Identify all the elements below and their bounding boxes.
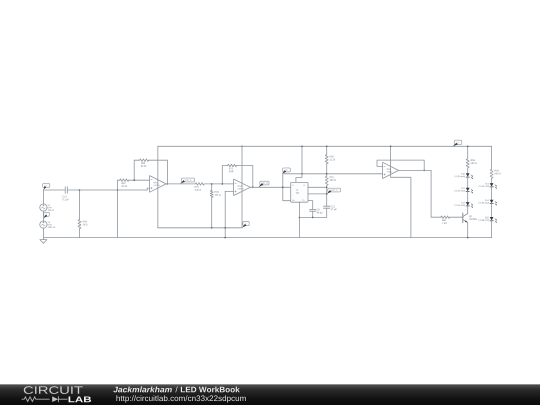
resistor R62: [441, 216, 450, 219]
wire OA3 negative supply: [391, 177, 411, 237]
wire D14 to D15: [491, 204, 493, 217]
LED D11 label: [461, 187, 464, 188]
wire OA1 output: [166, 183, 195, 185]
junction chain pin2: [326, 193, 328, 195]
footer url: [116, 395, 245, 402]
op-amp OA1: [150, 176, 167, 193]
logo diode: [52, 396, 58, 402]
capacitor C9: [310, 210, 316, 212]
capacitor C10: [65, 187, 67, 194]
junction node B: [117, 189, 119, 191]
junction OA3 feedback out: [423, 170, 425, 172]
resistor R60: [326, 146, 328, 154]
junction R69 top: [211, 183, 213, 185]
CircuitLab logo CIRCUIT: [24, 386, 83, 394]
footer bar: [0, 384, 540, 405]
wire rail to chain2: [491, 146, 493, 169]
junction C9 bottom: [312, 217, 314, 219]
wire OA3 output: [399, 170, 442, 217]
resistor R67: [120, 179, 129, 182]
IC U1: [291, 182, 308, 202]
wire OA3 feedback: [377, 160, 424, 170]
wire OA2 non-inverting input: [225, 190, 233, 192]
transistor Q1 label: [469, 215, 472, 217]
wire OA2 +input to ground: [224, 191, 226, 237]
junction chain pin1: [326, 187, 328, 189]
junction feedback-output: [167, 183, 169, 185]
junction R60 signal: [326, 173, 328, 175]
op-amp OA3: [383, 162, 399, 178]
wire source V4 top: [42, 190, 44, 204]
LED D12: [466, 202, 470, 206]
wire V5 to ground rail: [42, 228, 44, 237]
ground: [42, 238, 44, 240]
wire R70 to OA2: [204, 183, 233, 185]
wire OA2 output: [250, 186, 290, 188]
junction +input ground: [224, 237, 226, 239]
wire C9 to bottom wire: [312, 211, 314, 217]
resistor R62 label: [442, 219, 446, 221]
wire feedback tap: [134, 160, 139, 180]
footer logo and text: [0, 384, 540, 405]
junction flag node and OA2 out: [282, 187, 284, 189]
junction OA3 supply rail: [390, 146, 392, 148]
net flag stage2 output: [260, 181, 269, 185]
capacitor C9 label: [317, 209, 320, 211]
LED D11: [466, 188, 470, 192]
junction R69 bottom: [211, 227, 213, 229]
LED D14 label: [485, 200, 489, 201]
wire flag node drop: [283, 174, 291, 201]
junction OA2 supply-rail: [241, 146, 243, 148]
junction node A top: [79, 189, 81, 191]
wire C11 bottom: [326, 208, 328, 217]
resistor R71: [228, 164, 237, 167]
wire D13 to D14: [491, 187, 493, 200]
wire between V4 and V5: [42, 211, 44, 221]
net tag chain: [328, 188, 341, 192]
transistor Q1: [462, 213, 464, 223]
footer document title: [181, 387, 240, 393]
wire flag node horizontal: [283, 173, 383, 175]
wire R71 to OA2 output: [237, 166, 253, 188]
wire emitter to rail: [467, 222, 469, 237]
net flag VEE at OA2: [243, 222, 249, 226]
wire VEE rail: [158, 227, 242, 229]
footer slash: [175, 387, 177, 393]
resistor R59 label: [495, 170, 499, 172]
resistor R69 label: [215, 191, 219, 193]
junction feedback2-output: [252, 187, 254, 189]
capacitor C11: [324, 206, 330, 208]
LED D10 label: [461, 173, 465, 174]
resistor R67 label: [122, 182, 126, 184]
logo squiggle resistor-diode: [22, 396, 68, 402]
resistor R70 label: [195, 186, 199, 188]
junction feedback tap: [133, 179, 135, 181]
wire D15 to bottom rail: [491, 221, 493, 238]
resistor R68 label: [141, 162, 145, 164]
wire D10 to D11: [467, 177, 469, 187]
LED D10: [466, 173, 470, 177]
wire block right pin 1: [308, 186, 327, 188]
junction block supply crossing: [301, 173, 302, 174]
resistor R70: [195, 183, 204, 186]
net flag stage1 output: [181, 178, 194, 182]
voltage source V4 label: [48, 204, 50, 205]
voltage source V4: [40, 204, 47, 211]
net flag VCC: [454, 140, 462, 144]
node flag NODE1: [43, 183, 50, 187]
voltage source V5 label: [48, 221, 50, 222]
resistor R66: [79, 190, 81, 220]
resistor R58: [466, 159, 469, 168]
node flag NODE2: [44, 212, 50, 216]
junction block supply rail: [301, 146, 303, 148]
junction +input VEE crossing: [224, 227, 226, 229]
resistor R71 label: [229, 168, 233, 170]
LED D12 label: [461, 202, 464, 203]
wire block bottom horizontal: [299, 216, 326, 218]
wire R62 to base: [450, 216, 463, 218]
junction feedback2 tap: [222, 183, 224, 185]
wire input top-left horizontal: [43, 189, 65, 191]
junction rail chain1: [467, 146, 469, 148]
wire block top supply: [296, 146, 302, 182]
resistor R69: [211, 184, 213, 191]
resistor R60 label: [330, 156, 334, 158]
wire R58 to D10: [467, 168, 469, 173]
capacitor C10 value label: [63, 196, 67, 198]
LED D15: [490, 217, 494, 221]
wire non-inverting jog: [147, 188, 149, 190]
CircuitLab logo LAB: [69, 397, 92, 403]
wire block right pin 2: [308, 193, 327, 195]
wire rail to R58: [467, 146, 469, 159]
net flag block input: [283, 168, 291, 172]
LED D13: [490, 183, 494, 187]
resistor R66 label: [83, 221, 87, 223]
wire D12 to collector: [467, 206, 469, 214]
resistor R68: [140, 159, 149, 162]
wire block bottom pin: [298, 202, 300, 237]
voltage source V5: [40, 221, 47, 228]
resistor R58 label: [471, 159, 475, 161]
LED D15 label: [485, 217, 489, 218]
junction emitter rail: [467, 237, 469, 239]
capacitor C11 label: [331, 206, 335, 208]
wire OA3 supply vertical: [390, 146, 392, 177]
wire OA2 supply vertical: [241, 146, 243, 228]
resistor R61 label: [330, 176, 334, 178]
wire bottom rail: [43, 237, 491, 239]
wire cap to node A: [67, 189, 147, 191]
LED D14: [490, 200, 494, 204]
op-amp OA2: [234, 179, 251, 195]
footer username: [113, 387, 172, 393]
wire feedback2 tap: [222, 166, 227, 184]
wire OA1 supply vertical: [157, 146, 159, 228]
wire block lower right pin: [308, 201, 313, 210]
resistor R61: [325, 176, 328, 185]
wire R68 to output: [149, 160, 168, 184]
wire D11 to D12: [467, 192, 469, 202]
wire node B vertical: [117, 190, 119, 238]
wire to R67: [118, 180, 120, 190]
wire R67 to op-amp inverting input: [129, 179, 150, 181]
resistor R59: [490, 169, 493, 178]
wire top supply rail: [158, 145, 492, 147]
LED D13 label: [485, 183, 489, 184]
wire R59 to D13: [491, 178, 493, 183]
junction R60 rail: [326, 146, 328, 148]
junction block bottom pin: [299, 217, 301, 219]
